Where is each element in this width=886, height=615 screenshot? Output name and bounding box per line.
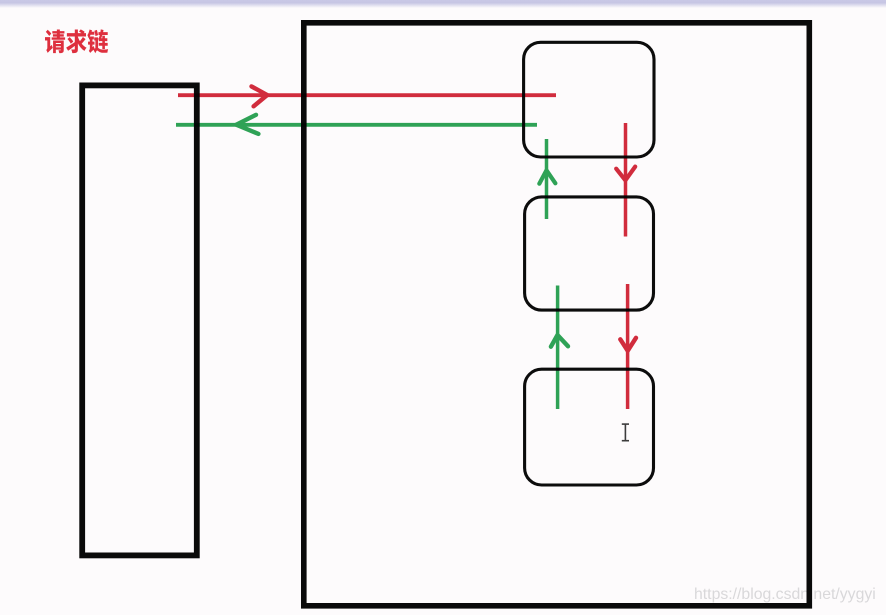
top lavender gradient bar	[0, 0, 886, 9]
red right-arrowhead on request wire	[252, 86, 268, 106]
watermark https://blog.csdn.net/yygyi	[694, 586, 886, 604]
red down wire box1 to box2	[624, 123, 628, 237]
green up-arrowhead between box1 and box2	[539, 170, 555, 183]
rounded box 3 (bottom servlet)	[525, 369, 654, 485]
red down-arrowhead between box1 and box2	[616, 167, 635, 181]
green up wire box3 to box2	[556, 286, 560, 410]
title 求 (red)	[66, 29, 86, 53]
red request wire (horizontal)	[178, 93, 556, 97]
green up-arrowhead between box2 and box3	[551, 335, 568, 347]
green response wire (horizontal)	[176, 123, 537, 127]
left tall rectangle (client)	[82, 85, 197, 555]
title 请 (red)	[45, 29, 65, 53]
I-beam text cursor inside box 3	[622, 424, 629, 441]
rounded box 2 (middle filter)	[525, 197, 654, 310]
big outer rectangle (server container)	[304, 23, 810, 606]
green up wire box2 to box1	[545, 139, 549, 219]
rounded box 1 (top filter)	[524, 42, 654, 157]
title 链 (red)	[87, 29, 108, 53]
red down wire box2 to box3	[626, 284, 630, 409]
red down-arrowhead between box2 and box3	[620, 338, 636, 351]
green left-arrowhead on response wire	[236, 115, 258, 134]
